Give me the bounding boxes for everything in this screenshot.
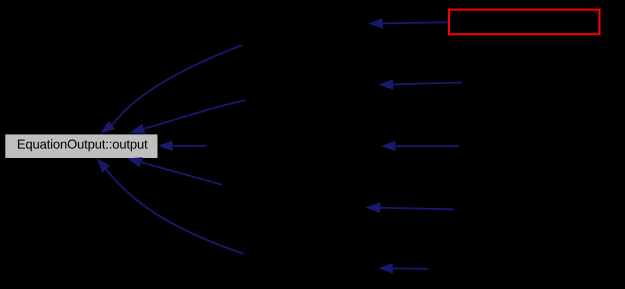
edge arrow R1 bbox=[368, 18, 448, 29]
node red box (hidden label) bbox=[449, 10, 600, 35]
edge arrow R2 bbox=[379, 79, 462, 90]
edge curve C1 bbox=[100, 45, 242, 133]
edge line C3 bbox=[158, 141, 206, 152]
edge arrow R5 bbox=[378, 263, 428, 274]
edge curve C5 bbox=[97, 158, 244, 254]
edge arrow R3 bbox=[381, 141, 459, 152]
edge curve C4 bbox=[127, 157, 222, 185]
edge curve C2 bbox=[130, 100, 245, 134]
node EquationOutput::output bbox=[5, 134, 157, 158]
edge arrow R4 bbox=[366, 202, 453, 213]
